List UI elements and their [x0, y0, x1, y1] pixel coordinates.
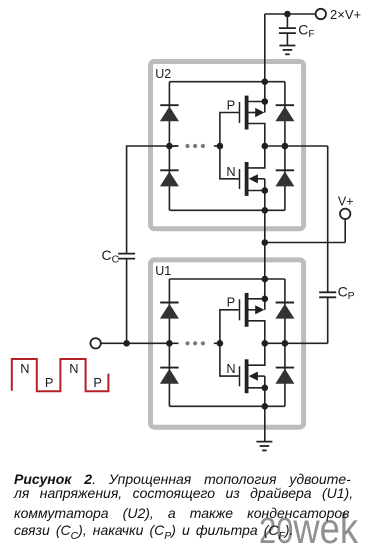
- label 2xV+: [330, 7, 361, 22]
- wire: U2 N gate lead: [220, 146, 239, 179]
- node: U2 gate node: [217, 143, 224, 150]
- svg-text:C: C: [298, 22, 308, 38]
- transistor U1 P-MOSFET: [240, 279, 269, 343]
- svg-text:U2: U2: [155, 67, 171, 81]
- wire: U2 mid to CC: [127, 146, 179, 253]
- wire: U1 left diode branch: [168, 279, 170, 406]
- wire: U1 N gate lead: [220, 343, 239, 376]
- transistor U2 N-MOSFET: [240, 146, 269, 210]
- wire: U2 mid-line right segment: [265, 145, 328, 147]
- watermark 20wek: [259, 508, 358, 551]
- figure caption: [14, 0, 364, 1]
- node: U2 left branch mid: [166, 143, 173, 150]
- label U1: [155, 264, 171, 278]
- svg-text:F: F: [308, 29, 314, 40]
- node: U2 top rail junction: [262, 78, 269, 85]
- wire: CP upper: [327, 146, 329, 292]
- label N (U1): [226, 361, 235, 376]
- terminal IN: [90, 338, 100, 348]
- wire: U1 mid-line right segment: [265, 342, 328, 344]
- svg-text:V+: V+: [338, 194, 354, 208]
- label CF: [298, 22, 314, 41]
- svg-text:N: N: [226, 361, 235, 376]
- svg-text:2×V+: 2×V+: [330, 7, 361, 22]
- node: U1 output: [262, 340, 269, 347]
- wire: U1 top rail: [169, 278, 285, 280]
- diode U1 lower-left: [160, 368, 179, 384]
- svg-text:N: N: [20, 361, 29, 376]
- label P (waveform 2): [93, 375, 102, 390]
- diode U2 lower-left: [160, 170, 179, 186]
- wire: V+ horizontal: [265, 242, 345, 244]
- svg-text:C: C: [338, 284, 348, 300]
- capacitor CC: [118, 254, 135, 344]
- node: U1 left branch mid: [166, 340, 173, 347]
- wire: U1 bottom rail: [169, 405, 285, 407]
- terminal V+: [340, 209, 350, 219]
- label N (U2): [226, 164, 235, 179]
- node: U2 right branch mid: [282, 143, 289, 150]
- node: U1 right branch mid: [282, 340, 289, 347]
- capacitor CP: [319, 292, 336, 297]
- wire: U2 bottom rail: [169, 209, 285, 211]
- label CC: [102, 247, 120, 266]
- diode U2 lower-right: [275, 170, 294, 186]
- ground (main): [256, 442, 272, 451]
- svg-text:N: N: [69, 361, 78, 376]
- wire: U1 source to ground: [264, 406, 266, 441]
- capacitor CF: [279, 14, 296, 45]
- wire: top output rail: [265, 13, 316, 15]
- ellipsis dots U1: [185, 341, 205, 345]
- wire: U1 right diode branch: [284, 279, 286, 406]
- diode U1 upper-left: [160, 303, 179, 319]
- svg-text:N: N: [226, 164, 235, 179]
- transistor U1 N-MOSFET: [240, 343, 269, 406]
- svg-text:U1: U1: [155, 264, 171, 278]
- label P (waveform 1): [45, 375, 54, 390]
- node: CF junction: [284, 11, 291, 18]
- wire: CP lower: [327, 298, 329, 343]
- label P (U2): [227, 97, 236, 112]
- wire: U1 P gate lead: [220, 310, 239, 344]
- wire: U2 drain rail to top: [264, 14, 266, 82]
- transistor U2 P-MOSFET: [240, 82, 269, 146]
- node: U2 output: [262, 143, 269, 150]
- wire: U2 top rail: [169, 81, 285, 83]
- wire: input to U1: [101, 342, 170, 344]
- node: U1 top rail junction: [262, 276, 269, 283]
- svg-text:P: P: [45, 375, 54, 390]
- wire: U2 P gate lead: [220, 113, 239, 147]
- diode U1 upper-right: [275, 303, 294, 319]
- wire: U2 source to V+ node: [264, 210, 266, 242]
- wire: U1 gate stub: [214, 342, 220, 344]
- node: U1 bottom rail junction: [262, 403, 269, 410]
- svg-text:P: P: [348, 291, 355, 302]
- node: U1 gate node: [217, 340, 224, 347]
- IC U1 box: [151, 260, 304, 427]
- IC U2 box: [151, 62, 304, 229]
- diode U1 lower-right: [275, 368, 294, 384]
- input waveform (square wave): [12, 359, 109, 391]
- ground (CF): [279, 46, 295, 55]
- label V+: [338, 194, 354, 208]
- wire: U2 right diode branch: [284, 82, 286, 211]
- svg-text:P: P: [227, 97, 236, 112]
- ellipsis dots U2: [185, 144, 205, 148]
- label U2: [155, 67, 171, 81]
- label P (U1): [227, 295, 236, 310]
- label N (waveform 2): [69, 361, 78, 376]
- node: U2 bottom rail junction: [262, 207, 269, 214]
- diode U2 upper-left: [160, 105, 179, 121]
- svg-text:C: C: [112, 254, 120, 265]
- node: input/CC junction: [123, 340, 130, 347]
- label N (waveform 1): [20, 361, 29, 376]
- svg-text:C: C: [102, 247, 112, 263]
- wire: V+ node to U1 top: [264, 243, 266, 280]
- wire: U2 mid-line left segment: [169, 145, 178, 147]
- wire: U2 gate stub: [214, 145, 220, 147]
- svg-text:P: P: [93, 375, 102, 390]
- wire: V+ stub: [344, 219, 346, 243]
- wire: U1 mid-line left segment: [169, 342, 178, 344]
- diode U2 upper-right: [275, 105, 294, 121]
- terminal 2xV+: [316, 9, 326, 19]
- label CP: [338, 284, 355, 303]
- node: V+ junction: [262, 239, 269, 246]
- svg-text:P: P: [227, 295, 236, 310]
- wire: U2 left diode branch: [168, 82, 170, 211]
